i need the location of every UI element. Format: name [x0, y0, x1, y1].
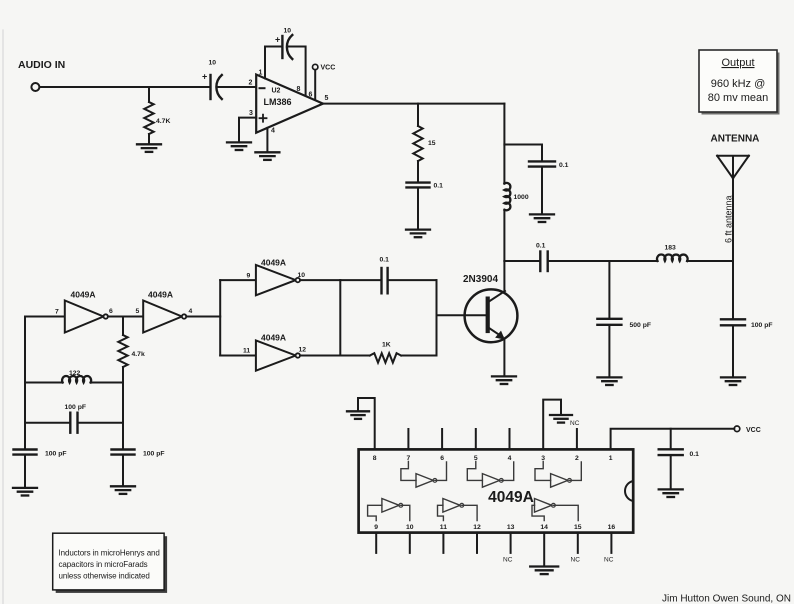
- svg-text:VCC: VCC: [321, 65, 336, 72]
- wire base from oscillator: [437, 314, 486, 316]
- wire right shunt cap to ground: [122, 455, 124, 486]
- wire right bus: [436, 280, 438, 355]
- resistor 15: [413, 126, 422, 161]
- wire IC pin 5 stub: [475, 429, 477, 449]
- wire IC pin 9 stub: [375, 533, 377, 553]
- svg-text:4.7K: 4.7K: [156, 118, 170, 125]
- svg-text:0.1: 0.1: [559, 162, 569, 169]
- svg-text:6: 6: [109, 308, 113, 315]
- capacitor 0.1 oscillator: [382, 268, 388, 293]
- wire feedback cap to pin 8: [288, 47, 306, 96]
- svg-text:LM386: LM386: [264, 97, 292, 107]
- svg-text:NC: NC: [571, 557, 581, 564]
- ground left column: [13, 488, 37, 496]
- wire 1K to right bus: [401, 355, 436, 357]
- svg-text:6: 6: [440, 455, 444, 462]
- IC inner inverter 9-10: [382, 499, 399, 513]
- ground under 0.1 cap: [406, 230, 430, 238]
- svg-text:U2: U2: [272, 88, 281, 95]
- inverter U1a bubble: [104, 314, 108, 318]
- svg-text:10: 10: [284, 28, 292, 35]
- wire 4.7k down right column: [122, 367, 124, 449]
- resistor 1K: [370, 353, 401, 362]
- svg-text:15: 15: [428, 140, 436, 147]
- capacitor 10 input coupling: [209, 75, 211, 99]
- svg-text:NC: NC: [570, 420, 580, 427]
- wire resistor 15 to cap: [417, 161, 419, 182]
- wire mid bus: [339, 280, 341, 355]
- wire IC pin 6 stub: [441, 429, 443, 449]
- svg-text:0.1: 0.1: [380, 257, 390, 264]
- wire IC pin 1 to VCC: [611, 429, 735, 450]
- wire pin 1 to feedback cap: [265, 47, 282, 79]
- capacitor 10 feedback: [281, 36, 283, 58]
- inverter U1d triangle: [256, 340, 296, 370]
- svg-text:4049A: 4049A: [488, 489, 534, 506]
- svg-text:Jim Hutton Owen Sound, ON: Jim Hutton Owen Sound, ON: [662, 594, 791, 604]
- IC inner inverter 7-6 wires: [401, 462, 447, 481]
- svg-text:10: 10: [298, 272, 306, 279]
- IC inner inverter 14-15: [535, 499, 552, 513]
- wire inductor 183 to antenna line: [687, 260, 733, 262]
- output info box shadow: [702, 53, 780, 115]
- IC inner inverter 3-2: [551, 474, 568, 488]
- terminal VCC IC: [734, 426, 740, 432]
- wire 100pF to ground: [732, 326, 734, 378]
- ground under 500 pF: [597, 377, 621, 385]
- wire IC pin 3 to ground: [543, 400, 561, 450]
- ground under 4.7K: [137, 144, 161, 152]
- svg-text:Inductors in microHenrys and: Inductors in microHenrys and: [59, 549, 160, 558]
- wire 100 pF series to right column: [78, 422, 124, 424]
- ground under IC bypass cap: [659, 489, 683, 497]
- output info box: [699, 50, 777, 112]
- svg-text:4: 4: [508, 455, 512, 462]
- wire IC pin 2 stub NC: [576, 429, 578, 449]
- inverter U1c bubble: [296, 278, 300, 282]
- svg-text:+: +: [202, 72, 207, 82]
- wire left column to pin 7: [25, 316, 65, 318]
- wire IC pin 16 stub NC: [610, 533, 612, 553]
- svg-text:6: 6: [309, 92, 313, 99]
- svg-text:183: 183: [665, 245, 677, 252]
- IC inner inverter 11-12 wires: [438, 505, 478, 520]
- inverter U1a triangle: [65, 301, 104, 333]
- wire branch to 0.1 bypass cap: [504, 145, 542, 162]
- IC inner inverter 14-15 wires: [532, 505, 578, 520]
- svg-text:122: 122: [69, 370, 81, 377]
- capacitor 100 pF right shunt: [112, 450, 135, 455]
- wire coupling cap to 500pF node: [548, 260, 658, 262]
- transistor Q1 base bar: [486, 299, 490, 331]
- wire inductor 122 to right column: [91, 382, 123, 384]
- IC inner inverter 5-4 wires: [467, 462, 513, 481]
- inductor 183: [657, 255, 688, 262]
- svg-text:9: 9: [374, 524, 378, 531]
- resistor 4.7k feedback: [118, 335, 127, 367]
- wire IC pin 15 stub NC: [577, 533, 579, 553]
- wire pin 4 to ground: [266, 128, 268, 152]
- inverter U1d bubble: [296, 353, 300, 357]
- wire bus to gate4 input: [220, 355, 256, 357]
- svg-text:2N3904: 2N3904: [463, 274, 498, 285]
- antenna symbol: [717, 156, 749, 179]
- svg-text:10: 10: [406, 524, 414, 531]
- svg-text:AUDIO IN: AUDIO IN: [18, 59, 65, 71]
- inductor 122: [62, 376, 91, 383]
- wire gate2 output to buffer bus: [186, 316, 220, 318]
- ground at IC pin 8: [347, 411, 369, 419]
- svg-text:100 pF: 100 pF: [751, 322, 773, 329]
- IC inner inverter 7-6: [416, 474, 433, 488]
- wire IC bypass cap to ground: [670, 455, 672, 489]
- svg-text:14: 14: [540, 524, 548, 531]
- transistor emitter stroke with arrow: [489, 328, 503, 337]
- IC inner inverter 3-2 wires: [535, 462, 581, 481]
- svg-text:9: 9: [247, 273, 251, 280]
- capacitor 0.1 under resistor 15: [407, 183, 430, 188]
- svg-text:11: 11: [440, 524, 447, 531]
- ground at IC pin 14: [530, 567, 558, 575]
- svg-text:0.1: 0.1: [434, 183, 444, 190]
- ground at IC pin 3: [550, 415, 572, 423]
- wire IC pin 13 stub NC: [510, 533, 512, 553]
- svg-text:Output: Output: [721, 57, 754, 69]
- ground at LM386 pin 3: [227, 142, 251, 150]
- wire IC pin 7 stub: [407, 429, 409, 449]
- IC inner inverter 11-12: [443, 499, 460, 513]
- wire IC pin 8 to ground: [358, 398, 375, 449]
- ground right column: [111, 486, 135, 494]
- wire IC pin 4 stub: [509, 429, 511, 449]
- svg-text:NC: NC: [604, 557, 614, 564]
- svg-text:100 pF: 100 pF: [45, 451, 67, 458]
- scan edge line left: [2, 30, 4, 604]
- svg-text:1000: 1000: [514, 194, 529, 201]
- wire left feedback column: [24, 317, 26, 450]
- svg-text:4049A: 4049A: [148, 289, 173, 299]
- transistor collector stroke: [489, 291, 505, 302]
- svg-text:VCC: VCC: [746, 427, 761, 434]
- capacitor 100 pF antenna: [721, 319, 745, 325]
- wire inductor to collector node: [503, 210, 505, 261]
- wire input cap to pin 2: [217, 86, 256, 88]
- svg-text:capacitors in microFarads: capacitors in microFarads: [59, 560, 148, 569]
- wire emitter to ground: [503, 340, 505, 376]
- svg-text:80 mv mean: 80 mv mean: [708, 92, 769, 104]
- resistor 4.7K input: [148, 87, 150, 102]
- wire gate1 output to gate2 input: [108, 316, 143, 318]
- inductor 1000: [504, 183, 510, 210]
- ground at LM386 pin 4: [255, 152, 279, 160]
- terminal audio input: [31, 83, 39, 91]
- pin 3 plus sign: [260, 115, 267, 122]
- wire IC pin 12 stub: [476, 533, 478, 553]
- svg-text:100 pF: 100 pF: [143, 451, 165, 458]
- svg-text:500 pF: 500 pF: [630, 322, 652, 329]
- resistor 4.7k feedback top wire: [122, 317, 124, 336]
- op-amp U2 LM386: [256, 75, 323, 133]
- wire cap to ground: [417, 188, 419, 230]
- wire 0.1 cap to right bus: [388, 279, 437, 281]
- ground under emitter: [492, 376, 516, 384]
- wire LM386 output pin 5 run: [323, 103, 504, 105]
- svg-text:ANTENNA: ANTENNA: [711, 134, 760, 145]
- wire row to inductor 122: [25, 382, 63, 384]
- ground under bypass cap: [530, 214, 554, 222]
- wire buffer input bus: [219, 280, 221, 355]
- wire IC pin 14 to ground: [543, 533, 545, 567]
- wire pin 6 to VCC: [314, 70, 316, 100]
- capacitor 100 pF series: [70, 413, 77, 433]
- wire 500pF to ground: [608, 325, 610, 377]
- svg-text:12: 12: [473, 524, 481, 531]
- svg-text:100 pF: 100 pF: [65, 404, 87, 411]
- inverter U1b triangle: [143, 301, 182, 333]
- wire 500pF branch: [608, 261, 610, 319]
- svg-text:11: 11: [243, 348, 250, 355]
- svg-text:13: 13: [507, 524, 515, 531]
- svg-text:4049A: 4049A: [261, 258, 286, 268]
- wire collector up: [503, 261, 505, 292]
- capacitor 100 pF left shunt: [14, 450, 37, 455]
- wire left shunt cap to ground: [24, 455, 26, 488]
- terminal VCC LM386: [313, 64, 318, 69]
- wire collector node to coupling cap: [504, 260, 540, 262]
- svg-text:1: 1: [259, 70, 263, 77]
- svg-text:960 kHz @: 960 kHz @: [711, 78, 766, 90]
- svg-text:10: 10: [209, 60, 217, 67]
- svg-text:1: 1: [609, 455, 613, 462]
- capacitor 0.1 IC bypass: [659, 449, 683, 455]
- note box: [53, 533, 164, 590]
- svg-text:16: 16: [608, 524, 616, 531]
- capacitor 0.1 coupling to antenna: [540, 252, 547, 272]
- inverter U1b bubble: [182, 314, 186, 318]
- capacitor 500 pF: [597, 319, 621, 325]
- wire gate3 output to mid bus: [300, 279, 340, 281]
- svg-text:1K: 1K: [382, 342, 391, 349]
- svg-text:0.1: 0.1: [690, 451, 700, 458]
- pin 2 minus sign: [260, 87, 265, 89]
- svg-text:2: 2: [249, 80, 253, 87]
- wire pin 3 to ground: [239, 118, 256, 143]
- wire row to 100 pF series cap: [25, 422, 70, 424]
- wire collector branch vertical upper: [503, 104, 505, 184]
- wire gate4 output to mid bus: [300, 355, 340, 357]
- svg-text:0.1: 0.1: [536, 243, 546, 250]
- wire bypass cap to ground: [541, 167, 543, 214]
- svg-text:unless otherwise indicated: unless otherwise indicated: [59, 571, 150, 580]
- wire VCC rail to 0.1 cap: [670, 429, 672, 449]
- svg-text:NC: NC: [503, 557, 513, 564]
- IC U1 4049A package body: [359, 449, 634, 532]
- wire mid bus to 0.1 cap: [340, 279, 381, 281]
- wire antenna down: [732, 178, 734, 319]
- IC inner inverter 9-10 wires: [368, 505, 410, 520]
- svg-text:15: 15: [574, 524, 582, 531]
- wire IC pin 11 stub: [442, 533, 444, 553]
- svg-text:+: +: [275, 35, 280, 45]
- note box shadow: [56, 536, 167, 593]
- svg-text:8: 8: [373, 455, 377, 462]
- svg-text:7: 7: [55, 309, 59, 316]
- svg-text:4049A: 4049A: [71, 289, 96, 299]
- inverter U1c triangle: [256, 265, 296, 295]
- IC inner inverter 5-4: [482, 474, 499, 488]
- svg-text:3: 3: [249, 110, 253, 117]
- wire IC pin 10 stub: [409, 533, 411, 553]
- svg-text:8: 8: [297, 86, 301, 93]
- wire bus to gate3 input: [220, 279, 256, 281]
- svg-text:4049A: 4049A: [261, 333, 286, 343]
- svg-text:12: 12: [299, 347, 307, 354]
- transistor Q1 circle: [465, 289, 518, 342]
- svg-text:5: 5: [325, 95, 329, 102]
- capacitor 0.1 bypass: [529, 161, 555, 166]
- ground under antenna: [721, 377, 745, 385]
- svg-text:4: 4: [189, 308, 193, 315]
- svg-text:2: 2: [575, 455, 579, 462]
- wire audio input to coupling cap: [40, 86, 210, 88]
- resistor 15 branch wire: [417, 104, 419, 126]
- IC notch: [625, 481, 633, 501]
- svg-text:5: 5: [136, 308, 140, 315]
- wire mid bus to 1K: [340, 355, 370, 357]
- svg-text:4: 4: [271, 128, 275, 135]
- svg-text:4.7k: 4.7k: [132, 351, 145, 358]
